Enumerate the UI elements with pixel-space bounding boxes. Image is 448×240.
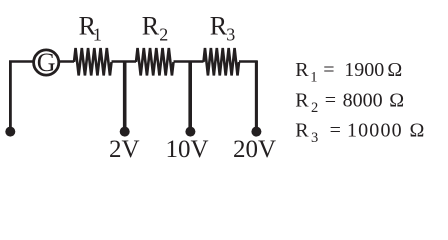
- svg-text:G: G: [37, 48, 56, 77]
- svg-text:2V: 2V: [109, 136, 140, 163]
- svg-text:R1=1900Ω: R1=1900Ω: [295, 59, 402, 86]
- svg-text:R3=10000Ω: R3=10000Ω: [295, 119, 424, 146]
- svg-text:R2=8000Ω: R2=8000Ω: [295, 89, 404, 116]
- svg-text:10V: 10V: [166, 136, 209, 163]
- svg-text:20V: 20V: [233, 136, 276, 163]
- svg-text:R1: R1: [79, 11, 102, 44]
- svg-text:R3: R3: [210, 11, 236, 44]
- svg-text:R2: R2: [142, 11, 169, 44]
